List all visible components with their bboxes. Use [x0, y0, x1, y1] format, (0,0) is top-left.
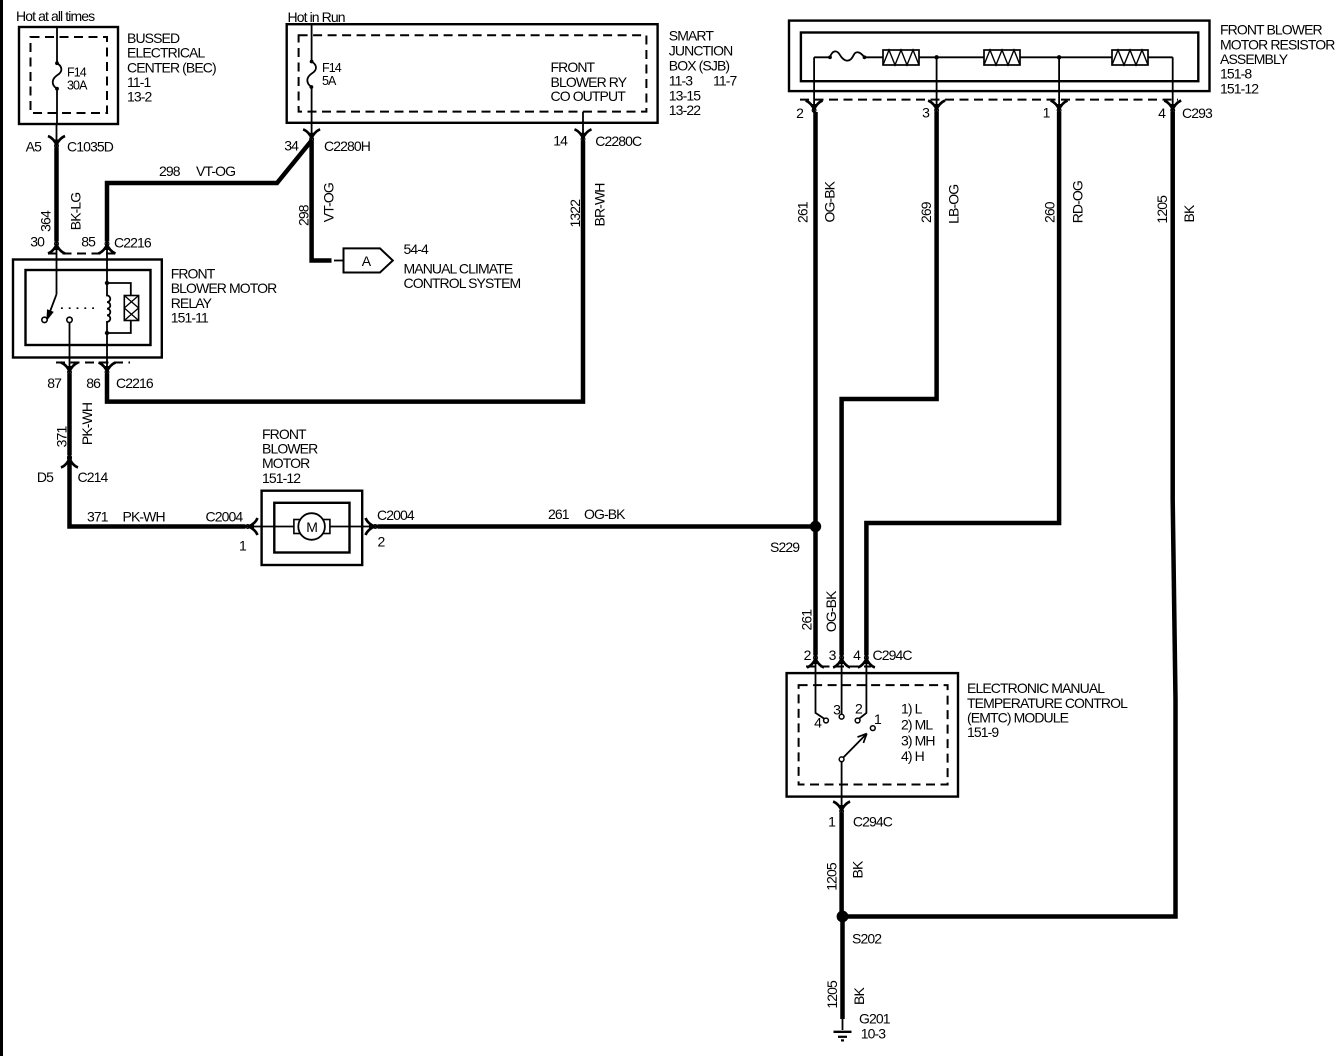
motor circle M — [298, 513, 325, 540]
svg-text:OG-BK: OG-BK — [584, 506, 626, 522]
connector C2216 lower dashed line — [56, 362, 130, 364]
wire 298 VT-OG down to flag A — [312, 141, 332, 261]
svg-text:MOTOR: MOTOR — [262, 455, 310, 471]
wire 260 RD-OG resistor pin1 to EMTC pin4 — [866, 112, 1059, 656]
svg-text:151-12: 151-12 — [1220, 80, 1259, 96]
wire pin87 stub — [69, 323, 71, 374]
svg-text:30A: 30A — [67, 79, 88, 93]
svg-text:4) H: 4) H — [901, 748, 924, 764]
svg-text:CONTROL SYSTEM: CONTROL SYSTEM — [404, 275, 521, 291]
svg-text:371: 371 — [87, 509, 109, 525]
wire through motor — [246, 526, 377, 528]
connector C294C pin 3 — [833, 656, 850, 668]
thermal limiter — [830, 51, 865, 60]
svg-text:261: 261 — [799, 609, 815, 631]
wire dash to flag — [334, 260, 344, 262]
connector C2004 pin 1 arrow — [246, 518, 258, 535]
wire 269 LB-OG resistor pin3 to EMTC pin3 — [842, 112, 937, 656]
EMTC switch contact 3 — [839, 714, 844, 719]
EMTC switch wiper — [839, 757, 844, 762]
svg-text:FRONT: FRONT — [551, 59, 596, 75]
svg-text:10-3: 10-3 — [861, 1026, 887, 1042]
EMTC switch output wire — [841, 762, 843, 813]
svg-text:3: 3 — [833, 702, 841, 718]
svg-text:2: 2 — [804, 647, 812, 663]
svg-text:13-2: 13-2 — [127, 89, 153, 105]
svg-text:4: 4 — [814, 715, 822, 731]
EMTC module inner dashed — [799, 685, 948, 784]
svg-text:BK: BK — [1181, 204, 1197, 222]
wire 364 BK-LG — [54, 148, 59, 242]
svg-text:VT-OG: VT-OG — [196, 163, 235, 179]
resistor R3 — [1112, 50, 1148, 65]
wire pin85 stub into relay — [106, 242, 108, 284]
wire 1205 BK EMTC to S202 — [839, 813, 844, 913]
wire 261 OG-BK motor to S229 — [378, 524, 816, 529]
svg-text:SMART: SMART — [669, 28, 715, 44]
svg-text:11-7: 11-7 — [713, 73, 737, 89]
wire 1205 BK S202 to ground — [840, 920, 845, 1019]
svg-text:BUSSED: BUSSED — [127, 30, 180, 46]
connector C294C pin 2 — [807, 656, 824, 668]
svg-text:298: 298 — [295, 204, 311, 226]
svg-text:54-4: 54-4 — [404, 241, 430, 257]
resistor assembly outer box — [789, 21, 1210, 92]
svg-text:BR-WH: BR-WH — [592, 184, 608, 227]
svg-text:PK-WH: PK-WH — [79, 403, 95, 445]
svg-text:M: M — [306, 519, 317, 535]
svg-text:371: 371 — [54, 426, 70, 448]
splice S202 — [837, 911, 849, 923]
svg-text:85: 85 — [81, 234, 96, 250]
svg-text:PK-WH: PK-WH — [123, 509, 165, 525]
relay contact circle — [42, 317, 47, 322]
relay inner box — [26, 270, 151, 345]
svg-text:4: 4 — [853, 647, 861, 663]
svg-text:A5: A5 — [26, 139, 42, 155]
svg-text:C2216: C2216 — [114, 235, 152, 251]
svg-text:OG-BK: OG-BK — [823, 590, 839, 632]
svg-text:13-22: 13-22 — [669, 102, 701, 118]
svg-text:Hot at all times: Hot at all times — [16, 8, 95, 24]
EMTC switch contact 4 — [824, 718, 829, 723]
svg-text:2) ML: 2) ML — [901, 717, 933, 733]
relay dotted actuation line — [61, 307, 99, 309]
resistor assembly taps — [814, 57, 1173, 112]
svg-text:151-9: 151-9 — [967, 724, 999, 740]
svg-text:C2004: C2004 — [377, 507, 415, 523]
svg-text:C214: C214 — [78, 469, 109, 485]
svg-text:2: 2 — [796, 105, 804, 121]
ground G201 — [834, 1031, 852, 1033]
svg-text:C2280C: C2280C — [595, 133, 642, 149]
splice S229 — [810, 521, 821, 532]
blower motor inner box — [274, 503, 349, 553]
svg-text:1: 1 — [874, 711, 882, 727]
connector C293 pin 1 — [1051, 101, 1068, 113]
svg-text:BLOWER: BLOWER — [262, 441, 318, 457]
smart junction box inner dashed — [299, 35, 647, 111]
svg-text:3: 3 — [829, 647, 837, 663]
resistor R2 — [984, 50, 1020, 65]
fuse box BEC inner dashed — [31, 37, 108, 113]
svg-text:MOTOR RESISTOR: MOTOR RESISTOR — [1220, 36, 1335, 52]
svg-text:11-3: 11-3 — [669, 73, 693, 89]
svg-text:F14: F14 — [322, 61, 342, 75]
svg-text:CENTER (BEC): CENTER (BEC) — [127, 59, 216, 75]
svg-text:3: 3 — [922, 105, 930, 121]
wire 371 PK-WH lower — [70, 456, 246, 527]
svg-text:D5: D5 — [37, 469, 54, 485]
wire 298 VT-OG branch to pin 85 — [107, 141, 312, 242]
connector C2216 pin 86 — [99, 363, 116, 375]
svg-text:G201: G201 — [859, 1011, 891, 1027]
svg-text:151-11: 151-11 — [171, 309, 209, 325]
svg-text:87: 87 — [47, 375, 62, 391]
wire 1322 BR-WH — [107, 141, 583, 402]
svg-text:269: 269 — [918, 201, 934, 223]
EMTC switch input wires — [816, 656, 825, 719]
wire 371 PK-WH upper — [67, 374, 72, 456]
svg-text:151-12: 151-12 — [262, 470, 301, 486]
svg-text:261: 261 — [795, 201, 811, 223]
svg-text:BOX (SJB): BOX (SJB) — [669, 58, 730, 74]
relay contact 87 circle — [67, 317, 72, 322]
svg-text:11-1: 11-1 — [127, 74, 151, 90]
svg-text:4: 4 — [1158, 105, 1166, 121]
connector C293 pin 3 — [928, 101, 945, 113]
svg-text:1: 1 — [1043, 105, 1051, 121]
svg-text:1: 1 — [828, 814, 836, 830]
svg-text:C1035D: C1035D — [67, 139, 114, 155]
svg-text:CO OUTPUT: CO OUTPUT — [551, 88, 627, 104]
connector C2216 pin 30 — [48, 242, 65, 254]
svg-text:260: 260 — [1042, 201, 1058, 223]
svg-text:364: 364 — [38, 210, 54, 232]
svg-text:261: 261 — [548, 506, 570, 522]
smart junction box outer — [287, 24, 658, 123]
svg-text:FRONT BLOWER: FRONT BLOWER — [1220, 22, 1323, 38]
EMTC switch contact 2 — [855, 718, 860, 723]
connector C2280H pin 34 — [311, 123, 313, 141]
relay front blower motor relay outer box — [13, 260, 162, 358]
relay coil suppression resistor — [107, 283, 131, 333]
connector C293 pin 2 — [806, 101, 823, 113]
svg-text:ELECTRICAL: ELECTRICAL — [127, 45, 205, 61]
svg-text:1: 1 — [239, 538, 247, 554]
connector C2280C pin 14 stub — [582, 112, 584, 141]
connector C2216 dashed line — [48, 253, 120, 255]
svg-text:ASSEMBLY: ASSEMBLY — [1220, 51, 1289, 67]
svg-text:ELECTRONIC MANUAL: ELECTRONIC MANUAL — [967, 680, 1105, 696]
svg-text:LB-OG: LB-OG — [946, 185, 962, 224]
wire 1205 BK resistor pin4 down to S202 — [848, 112, 1176, 917]
svg-text:C2280H: C2280H — [324, 138, 370, 154]
svg-text:Hot in Run: Hot in Run — [288, 9, 345, 25]
connector C294C dashed line — [806, 666, 871, 668]
svg-text:OG-BK: OG-BK — [821, 180, 837, 222]
connector C1035D pin A5 — [56, 124, 58, 147]
svg-text:13-15: 13-15 — [669, 87, 701, 103]
svg-text:F14: F14 — [67, 66, 87, 80]
connector C214 pin D5 — [61, 456, 78, 468]
svg-text:C294C: C294C — [853, 814, 893, 830]
svg-text:VT-OG: VT-OG — [321, 183, 337, 222]
svg-text:C293: C293 — [1182, 105, 1213, 121]
svg-text:C2216: C2216 — [116, 375, 154, 391]
blower motor outer box — [262, 491, 363, 565]
wire pin86 stub — [106, 333, 108, 374]
svg-text:86: 86 — [86, 375, 101, 391]
svg-text:30: 30 — [30, 234, 45, 250]
flag A manual climate control — [344, 248, 393, 272]
svg-text:14: 14 — [553, 133, 568, 149]
connector C2216 pin 85 — [99, 242, 116, 254]
svg-text:BK: BK — [851, 987, 867, 1005]
relay coil 85-86 — [107, 283, 110, 333]
svg-text:C294C: C294C — [873, 647, 913, 663]
EMTC switch contact 1 — [870, 726, 875, 731]
svg-text:BK: BK — [850, 860, 866, 878]
svg-text:JUNCTION: JUNCTION — [669, 43, 733, 59]
connector C293 pin 4 — [1164, 101, 1181, 113]
connector C2216 pin 87 — [61, 363, 78, 375]
svg-text:298: 298 — [159, 163, 181, 179]
svg-text:1322: 1322 — [567, 199, 583, 228]
svg-text:C2004: C2004 — [206, 509, 244, 525]
motor brushes — [294, 520, 300, 534]
svg-text:2: 2 — [855, 701, 863, 717]
svg-text:1) L: 1) L — [901, 701, 923, 717]
svg-text:151-8: 151-8 — [1220, 66, 1252, 82]
resistor R1 — [883, 50, 919, 65]
svg-text:BLOWER MOTOR: BLOWER MOTOR — [171, 280, 277, 296]
connector C2004 pin 2 arrow — [366, 518, 378, 535]
svg-text:BK-LG: BK-LG — [68, 193, 84, 231]
fuse box BEC outer — [19, 27, 118, 124]
connector C294C pin 1 — [833, 802, 850, 814]
svg-text:FRONT: FRONT — [262, 426, 307, 442]
svg-text:S202: S202 — [852, 930, 882, 946]
svg-text:1205: 1205 — [824, 862, 840, 891]
resistor bus wire — [814, 56, 1173, 58]
svg-text:3) MH: 3) MH — [901, 733, 935, 749]
connector C294C pin 4 — [858, 656, 875, 668]
connector C293 dashed line — [800, 99, 1178, 101]
svg-text:2: 2 — [378, 534, 386, 550]
fuse F14 5A — [311, 24, 313, 61]
svg-text:34: 34 — [284, 138, 299, 154]
svg-text:1205: 1205 — [824, 980, 840, 1009]
EMTC module outer box — [787, 673, 958, 797]
wire pin30 stub into relay — [56, 242, 58, 295]
relay switch arm 30 — [49, 294, 57, 315]
resistor assembly inner box — [801, 33, 1198, 82]
svg-text:1205: 1205 — [1154, 195, 1170, 224]
wire 261 OG-BK resistor pin2 down through S229 — [813, 112, 818, 656]
svg-text:5A: 5A — [322, 74, 337, 88]
svg-text:RD-OG: RD-OG — [1069, 181, 1085, 223]
svg-text:S229: S229 — [770, 539, 800, 555]
svg-text:FRONT: FRONT — [171, 265, 216, 281]
fuse F14 30A — [56, 27, 58, 63]
